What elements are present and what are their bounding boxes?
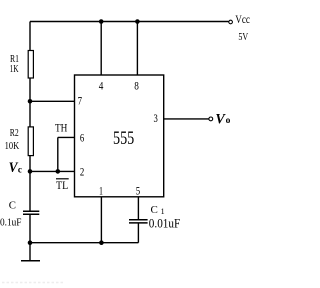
resistor R1 — [28, 51, 33, 79]
node: bottom-left junction — [28, 240, 33, 245]
wire: pin 8 to Vcc rail — [136, 22, 138, 76]
svg-text:6: 6 — [80, 131, 84, 145]
terminal Vcc — [229, 20, 233, 24]
svg-text:0.01uF: 0.01uF — [149, 216, 180, 231]
node: pin1 / bottom rail junction — [99, 240, 104, 245]
label TL (with overline) — [56, 178, 69, 180]
wire: capacitor C1 to bottom rail — [137, 223, 139, 243]
wire: pin 1 to bottom rail — [100, 197, 102, 243]
wire: bottom rail — [30, 242, 138, 244]
svg-text:555: 555 — [113, 129, 134, 149]
node: TH tie / pin2 wire junction — [56, 169, 61, 174]
node: junction Vc (R2/C/pin2) — [28, 169, 33, 174]
svg-text:4: 4 — [99, 79, 104, 93]
svg-text:o: o — [226, 116, 231, 126]
svg-text:Vcc: Vcc — [235, 12, 250, 26]
svg-text:5: 5 — [136, 183, 140, 197]
capacitor C — [23, 210, 39, 212]
svg-text:c: c — [18, 165, 22, 175]
svg-text:3: 3 — [154, 111, 158, 125]
svg-text:R2: R2 — [10, 127, 19, 139]
wire: capacitor C to bottom rail — [29, 214, 31, 243]
svg-text:2: 2 — [80, 165, 84, 179]
wire: R2 bottom to capacitor C — [29, 156, 31, 211]
svg-text:TL: TL — [56, 180, 68, 192]
wire: left rail from top to R1 — [29, 22, 31, 52]
svg-text:TH: TH — [55, 122, 67, 134]
svg-text:C: C — [151, 204, 158, 216]
node: pin4 / rail junction — [99, 19, 104, 24]
capacitor C1 — [129, 219, 148, 221]
svg-text:7: 7 — [78, 94, 82, 108]
ground — [29, 243, 31, 261]
node: pin8 / rail junction — [135, 19, 140, 24]
svg-text:1K: 1K — [10, 63, 19, 75]
svg-text:1: 1 — [161, 207, 165, 216]
wire: pin 3 output — [164, 118, 209, 120]
node: junction R1/R2/pin7 — [28, 99, 33, 104]
wire: to pin 6 — [58, 136, 75, 138]
svg-text:1: 1 — [99, 184, 103, 198]
resistor R2 — [28, 127, 33, 156]
wire: pin 5 to capacitor C1 — [137, 197, 139, 220]
svg-text:8: 8 — [134, 79, 139, 93]
svg-text:0.1uF: 0.1uF — [0, 216, 22, 228]
wire: R1 bottom to R2 top — [29, 78, 31, 127]
wire: to pin 2 — [30, 170, 75, 172]
wire: to pin 7 — [30, 100, 75, 102]
wire: TH vertical tie (pin6 to pin2 net) — [57, 137, 59, 171]
terminal Vo — [209, 117, 213, 121]
IC U1 555 — [75, 75, 164, 197]
wire: top Vcc rail — [30, 21, 229, 23]
wire: pin 4 to Vcc rail — [100, 22, 102, 76]
svg-text:5V: 5V — [238, 31, 248, 43]
svg-text:C: C — [9, 200, 16, 212]
svg-text:10K: 10K — [5, 140, 20, 152]
